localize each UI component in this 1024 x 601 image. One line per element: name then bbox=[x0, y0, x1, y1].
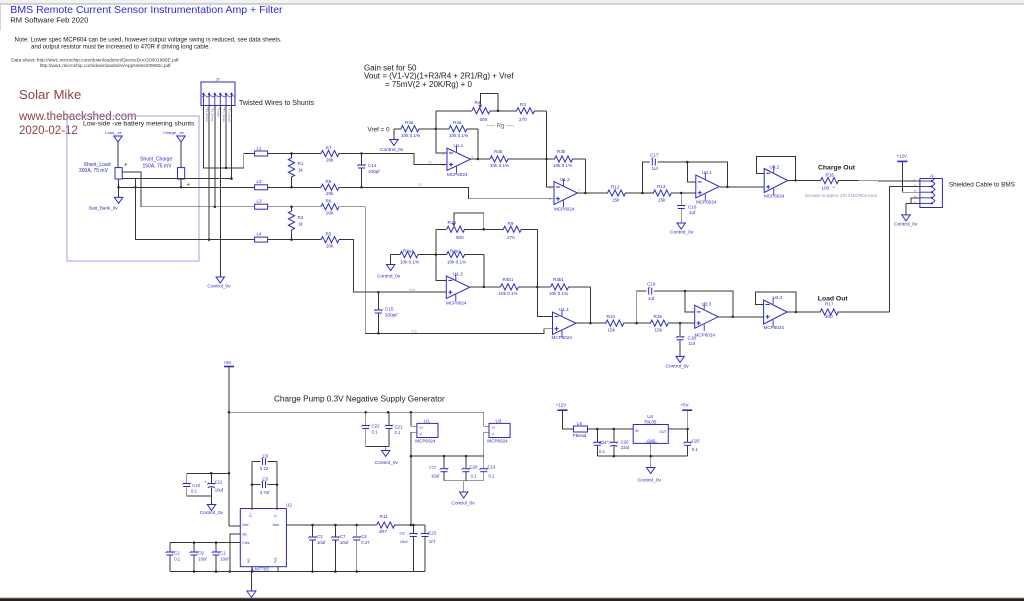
svg-text:10k 0.1%: 10k 0.1% bbox=[490, 163, 509, 168]
svg-text:100: 100 bbox=[822, 185, 830, 190]
svg-text:270: 270 bbox=[519, 117, 527, 122]
svg-text:C23: C23 bbox=[428, 530, 436, 535]
svg-text:U3.4: U3.4 bbox=[773, 295, 783, 300]
svg-text:150A, 75 mV: 150A, 75 mV bbox=[143, 163, 173, 169]
svg-text:10uf: 10uf bbox=[400, 539, 408, 544]
svg-text:C12: C12 bbox=[429, 464, 436, 469]
svg-text:1uf: 1uf bbox=[689, 341, 696, 346]
svg-text:78L05: 78L05 bbox=[644, 419, 657, 424]
svg-text:+: + bbox=[204, 479, 207, 484]
svg-text:Ld_Sense-: Ld_Sense- bbox=[211, 109, 215, 122]
svg-text:10uf: 10uf bbox=[220, 556, 229, 561]
svg-text:U2: U2 bbox=[286, 503, 292, 508]
svg-text:R7: R7 bbox=[326, 145, 332, 150]
svg-text:Cres: Cres bbox=[242, 541, 249, 545]
svg-text:R4a: R4a bbox=[453, 120, 462, 125]
svg-text:Vss: Vss bbox=[273, 557, 277, 563]
svg-text:0.1: 0.1 bbox=[372, 429, 379, 434]
svg-text:V1a: V1a bbox=[411, 329, 417, 333]
svg-text:0.1: 0.1 bbox=[692, 447, 699, 452]
svg-text:IN: IN bbox=[635, 429, 639, 433]
svg-text:+12V: +12V bbox=[556, 403, 566, 408]
svg-text:and output resistor must be in: and output resistor must be increased to… bbox=[31, 45, 210, 51]
svg-text:4.7uf: 4.7uf bbox=[260, 490, 270, 495]
svg-text:Batt_Bank_0v: Batt_Bank_0v bbox=[89, 205, 118, 210]
svg-text:R14: R14 bbox=[607, 314, 616, 319]
svg-text:10k 0.1%: 10k 0.1% bbox=[401, 133, 420, 138]
svg-text:PG: PG bbox=[247, 558, 251, 563]
svg-text:C9: C9 bbox=[198, 550, 204, 555]
svg-text:V-: V- bbox=[420, 433, 423, 437]
svg-text:Note: Lower spec MCP604 can be: Note: Lower spec MCP604 can be used, how… bbox=[15, 37, 283, 43]
svg-text:SD: SD bbox=[242, 532, 247, 536]
svg-text:Low-side -ve battery metering: Low-side -ve battery metering shunts bbox=[83, 121, 195, 128]
svg-text:V2: V2 bbox=[418, 183, 422, 187]
svg-text:C5: C5 bbox=[263, 476, 269, 481]
svg-text:C-: C- bbox=[273, 514, 277, 517]
svg-text:R4a1: R4a1 bbox=[450, 249, 461, 254]
svg-text:R8: R8 bbox=[326, 179, 332, 184]
svg-text:Vout: Vout bbox=[272, 523, 279, 527]
svg-text:Control_0v: Control_0v bbox=[375, 460, 399, 466]
svg-text:R16: R16 bbox=[826, 173, 835, 178]
svg-text:C16: C16 bbox=[688, 204, 697, 209]
svg-text:Data sheet: http://ww1.microch: Data sheet: http://ww1.microchip.com/dow… bbox=[11, 58, 179, 64]
svg-text:C14: C14 bbox=[368, 163, 377, 168]
svg-text:1uf: 1uf bbox=[652, 166, 659, 171]
svg-text:= 75mV(2 + 20K/Rg) + 0: = 75mV(2 + 20K/Rg) + 0 bbox=[385, 80, 472, 89]
svg-text:V+: V+ bbox=[420, 426, 424, 430]
svg-text:Load_-ve: Load_-ve bbox=[105, 130, 122, 135]
svg-text:1nf: 1nf bbox=[429, 539, 436, 544]
svg-text:U1.4: U1.4 bbox=[559, 307, 569, 312]
svg-text:U4: U4 bbox=[647, 414, 653, 419]
svg-text:R2: R2 bbox=[298, 215, 304, 220]
svg-text:J2: J2 bbox=[215, 77, 221, 82]
svg-text:22uf: 22uf bbox=[621, 445, 630, 450]
svg-text:C19: C19 bbox=[647, 281, 656, 286]
svg-text:20k: 20k bbox=[326, 157, 334, 162]
svg-text:MCP6024: MCP6024 bbox=[446, 300, 467, 305]
svg-text:0.1: 0.1 bbox=[599, 449, 606, 454]
svg-text:Charge Pump 0.3V Negative Supp: Charge Pump 0.3V Negative Supply Generat… bbox=[274, 394, 445, 403]
svg-text:10k 0.1%: 10k 0.1% bbox=[447, 260, 466, 265]
svg-text:0.1: 0.1 bbox=[191, 488, 198, 493]
svg-text:0.1: 0.1 bbox=[471, 473, 478, 478]
svg-text:10k 0.1%: 10k 0.1% bbox=[553, 163, 572, 168]
svg-text:Control_0v: Control_0v bbox=[380, 147, 404, 153]
svg-text:500: 500 bbox=[480, 117, 488, 122]
svg-text:GND: GND bbox=[647, 439, 656, 443]
svg-text:C22: C22 bbox=[372, 424, 380, 429]
svg-text:4R7: 4R7 bbox=[379, 529, 388, 534]
svg-text:U3: U3 bbox=[496, 419, 502, 424]
svg-text:Control_0v: Control_0v bbox=[451, 500, 475, 506]
svg-text:Ch_Sense+: Ch_Sense+ bbox=[228, 109, 232, 124]
svg-text:MCP6024: MCP6024 bbox=[447, 172, 468, 177]
svg-text:C4: C4 bbox=[361, 534, 367, 539]
svg-text:OUT: OUT bbox=[659, 430, 666, 434]
svg-text:Control_0v: Control_0v bbox=[207, 283, 231, 289]
svg-text:L5: L5 bbox=[577, 421, 583, 426]
svg-text:R1: R1 bbox=[298, 161, 304, 166]
svg-text:FBead: FBead bbox=[573, 433, 587, 438]
svg-text:J1: J1 bbox=[929, 173, 934, 178]
svg-text:10uf: 10uf bbox=[431, 473, 440, 478]
svg-text:10uf: 10uf bbox=[340, 540, 349, 545]
svg-text:10k 0.1%: 10k 0.1% bbox=[400, 260, 419, 265]
svg-text:U3.1: U3.1 bbox=[702, 170, 712, 175]
svg-text:R3a: R3a bbox=[405, 120, 414, 125]
svg-text:V+: V+ bbox=[492, 426, 496, 430]
svg-text:100pF: 100pF bbox=[385, 313, 398, 318]
svg-text:R17: R17 bbox=[825, 301, 834, 306]
svg-text:RM Software Feb 2020: RM Software Feb 2020 bbox=[10, 16, 88, 25]
svg-text:MCP6024: MCP6024 bbox=[415, 438, 436, 443]
svg-text:C8: C8 bbox=[400, 530, 405, 535]
svg-text:15k: 15k bbox=[655, 327, 663, 332]
svg-text:Control_0v: Control_0v bbox=[894, 221, 918, 227]
svg-text:Ld_Sense+: Ld_Sense+ bbox=[205, 109, 209, 123]
svg-text:C1: C1 bbox=[220, 550, 226, 555]
svg-text:1k: 1k bbox=[298, 221, 304, 226]
svg-text:R3: R3 bbox=[520, 102, 526, 107]
svg-text:15k: 15k bbox=[612, 198, 620, 203]
svg-text:Control_0v: Control_0v bbox=[377, 273, 401, 279]
svg-text:C11: C11 bbox=[215, 480, 223, 485]
svg-text:10k 0.1%: 10k 0.1% bbox=[499, 291, 518, 296]
svg-text:R3a1: R3a1 bbox=[403, 249, 414, 254]
svg-text:V1: V1 bbox=[428, 161, 432, 165]
svg-text:BMS Remote Current Sensor Inst: BMS Remote Current Sensor Instrumentatio… bbox=[10, 4, 283, 16]
svg-text:U1.2: U1.2 bbox=[560, 177, 570, 182]
svg-text:MCP6024: MCP6024 bbox=[764, 193, 785, 198]
svg-text:Shielded Cable to BMS: Shielded Cable to BMS bbox=[949, 181, 1015, 188]
svg-text:R4b1: R4b1 bbox=[503, 277, 514, 282]
svg-text:0.47: 0.47 bbox=[361, 540, 370, 545]
svg-text:100pf: 100pf bbox=[368, 169, 380, 174]
svg-text:Charge Out: Charge Out bbox=[818, 164, 856, 171]
svg-text:MCP6024: MCP6024 bbox=[487, 438, 508, 443]
svg-text:Vdd: Vdd bbox=[242, 523, 248, 527]
svg-text:Increase to approx 470 if MCP6: Increase to approx 470 if MCP604 used bbox=[805, 193, 878, 198]
svg-text:R13: R13 bbox=[657, 184, 666, 189]
svg-text:U3.2: U3.2 bbox=[770, 165, 780, 170]
svg-text:C+: C+ bbox=[249, 513, 253, 517]
svg-text:U1.3: U1.3 bbox=[453, 271, 463, 276]
svg-text:MCP6024: MCP6024 bbox=[764, 325, 785, 330]
svg-text:L1: L1 bbox=[257, 145, 263, 150]
svg-text:+12V: +12V bbox=[897, 153, 907, 158]
svg-text:Shunt_Charge: Shunt_Charge bbox=[140, 156, 172, 162]
svg-text:L2: L2 bbox=[257, 179, 263, 184]
svg-text:R6: R6 bbox=[326, 199, 332, 204]
svg-text:U1: U1 bbox=[424, 419, 430, 424]
svg-text:Solar Mike: Solar Mike bbox=[19, 87, 81, 102]
svg-text:R11: R11 bbox=[380, 514, 389, 519]
svg-text:+: + bbox=[124, 163, 128, 169]
svg-text:C13: C13 bbox=[488, 464, 496, 469]
svg-text:Control_0v: Control_0v bbox=[666, 363, 690, 369]
svg-text:0.1: 0.1 bbox=[174, 556, 181, 561]
svg-text:R15: R15 bbox=[654, 314, 663, 319]
svg-text:10uf: 10uf bbox=[215, 487, 224, 492]
svg-text:C20: C20 bbox=[470, 464, 478, 469]
svg-text:R3b: R3b bbox=[557, 149, 566, 154]
svg-text:100: 100 bbox=[825, 314, 833, 319]
svg-text:MCP6024: MCP6024 bbox=[554, 206, 575, 211]
svg-text:10k 0.1%: 10k 0.1% bbox=[449, 133, 468, 138]
svg-text:20k: 20k bbox=[326, 243, 334, 248]
svg-text:300A, 75 mV: 300A, 75 mV bbox=[79, 168, 109, 174]
svg-text:15k: 15k bbox=[658, 198, 666, 203]
svg-text:R4b: R4b bbox=[494, 149, 503, 154]
svg-text:1k: 1k bbox=[298, 167, 304, 172]
svg-text:Charge_-ve: Charge_-ve bbox=[163, 130, 185, 135]
svg-text:Twisted Wires to Shunts: Twisted Wires to Shunts bbox=[239, 100, 315, 107]
svg-text:R12: R12 bbox=[611, 185, 620, 190]
svg-text:U3.3: U3.3 bbox=[702, 302, 712, 307]
svg-text:V-: V- bbox=[492, 433, 495, 437]
svg-text:U1.1: U1.1 bbox=[454, 143, 464, 148]
svg-text:0.1: 0.1 bbox=[395, 430, 402, 435]
svg-text:Vref = 0: Vref = 0 bbox=[368, 126, 390, 133]
svg-text:LM7705: LM7705 bbox=[252, 566, 269, 571]
svg-text:+5V: +5V bbox=[224, 360, 232, 365]
svg-text:L4: L4 bbox=[257, 231, 263, 236]
svg-text:C6: C6 bbox=[263, 454, 269, 459]
svg-text:Control_0v: Control_0v bbox=[638, 478, 662, 484]
svg-text:C17: C17 bbox=[650, 152, 659, 157]
svg-text:20k: 20k bbox=[326, 211, 334, 216]
svg-text:R9: R9 bbox=[508, 221, 514, 226]
svg-text:R3b1: R3b1 bbox=[553, 277, 564, 282]
svg-text:0.1: 0.1 bbox=[489, 473, 496, 478]
svg-text:C7: C7 bbox=[340, 534, 346, 539]
svg-text:15k: 15k bbox=[608, 327, 616, 332]
svg-text:C21: C21 bbox=[395, 424, 403, 429]
svg-text:10k 0.1%: 10k 0.1% bbox=[549, 291, 568, 296]
svg-text:MCP6024: MCP6024 bbox=[552, 335, 573, 340]
svg-text:270: 270 bbox=[507, 235, 515, 240]
svg-text:R5: R5 bbox=[326, 231, 332, 236]
svg-text:1uf: 1uf bbox=[648, 296, 655, 301]
svg-text:C15: C15 bbox=[385, 306, 394, 311]
svg-text:---- Rg ----: ---- Rg ---- bbox=[487, 123, 515, 130]
svg-text:MCP6024: MCP6024 bbox=[695, 332, 716, 337]
svg-text:2020-02-12: 2020-02-12 bbox=[19, 125, 78, 137]
svg-text:MCP6024: MCP6024 bbox=[696, 199, 717, 204]
svg-text:R10: R10 bbox=[448, 220, 457, 225]
svg-text:C10: C10 bbox=[192, 483, 200, 488]
svg-text:L3: L3 bbox=[257, 199, 263, 204]
svg-text:C26: C26 bbox=[621, 439, 629, 444]
svg-text:10uf: 10uf bbox=[317, 540, 326, 545]
svg-text:C25: C25 bbox=[692, 438, 700, 443]
svg-text:C3: C3 bbox=[317, 534, 323, 539]
svg-text:Control_0v: Control_0v bbox=[670, 230, 694, 236]
svg-text:+5V: +5V bbox=[681, 403, 689, 408]
svg-text:C2: C2 bbox=[174, 550, 180, 555]
svg-text:V2a: V2a bbox=[409, 288, 415, 292]
svg-text:http://ww1.microchip.com/downl: http://ww1.microchip.com/downloads/en/Ap… bbox=[40, 63, 172, 69]
svg-text:Ch_Sense-: Ch_Sense- bbox=[222, 109, 226, 123]
svg-text:10uf: 10uf bbox=[198, 556, 207, 561]
svg-text:Control_0v: Control_0v bbox=[200, 510, 224, 516]
svg-text:500: 500 bbox=[456, 235, 464, 240]
svg-text:1uf: 1uf bbox=[689, 210, 696, 215]
svg-text:20k: 20k bbox=[326, 191, 334, 196]
svg-text:0.22: 0.22 bbox=[260, 466, 269, 471]
